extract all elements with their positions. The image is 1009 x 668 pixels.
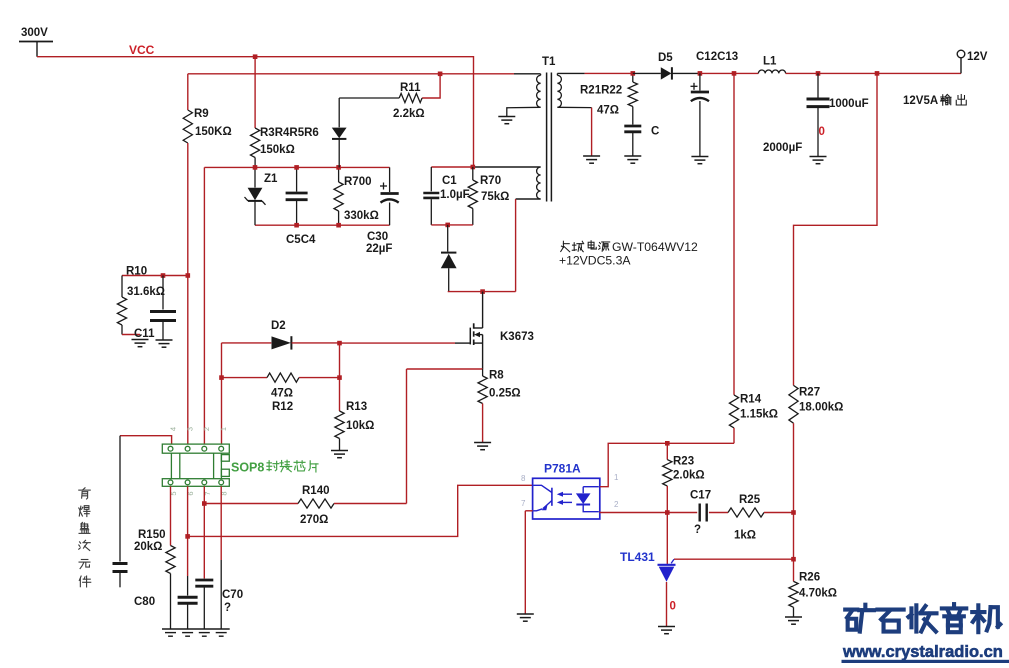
ground below R8 bbox=[474, 442, 491, 444]
svg-text:47Ω: 47Ω bbox=[597, 105, 619, 117]
ground cluster under SOP8 bbox=[162, 628, 230, 630]
wire R8 sense riser to R140 bbox=[406, 369, 408, 504]
wire primary bottom lead bbox=[507, 107, 541, 116]
svg-text:R26: R26 bbox=[799, 572, 820, 584]
capacitor C snubber bbox=[624, 125, 641, 128]
wire pin6 column bbox=[187, 486, 189, 576]
wire opto pin2 line bbox=[599, 511, 601, 514]
svg-text:R21R22: R21R22 bbox=[580, 85, 622, 97]
svg-text:C5C4: C5C4 bbox=[286, 234, 316, 246]
svg-text:1.15kΩ: 1.15kΩ bbox=[740, 409, 778, 421]
ground opto bbox=[517, 613, 534, 615]
svg-text:R700: R700 bbox=[344, 176, 372, 188]
transformer primary winding bbox=[540, 74, 542, 76]
resistor R25 bbox=[728, 508, 764, 517]
wire Z1 box top edge bbox=[204, 166, 389, 168]
svg-text:330kΩ: 330kΩ bbox=[344, 210, 379, 222]
svg-text:2000µF: 2000µF bbox=[763, 142, 802, 154]
wire D2 node down to SOP8 pin1 bbox=[221, 343, 223, 444]
ground below 1000uF bbox=[810, 156, 827, 158]
svg-text:T1: T1 bbox=[542, 56, 556, 68]
resistor R12 bbox=[222, 377, 268, 379]
watermark crystalradio logo bbox=[845, 605, 874, 632]
svg-text:150kΩ: 150kΩ bbox=[260, 144, 295, 156]
wire drain riser bbox=[482, 292, 484, 328]
wire pin4 node from C80 bbox=[120, 436, 172, 444]
wire Z1 box bottom edge bbox=[255, 224, 390, 226]
wire VCC rail bbox=[37, 57, 474, 167]
svg-text:L1: L1 bbox=[763, 56, 777, 68]
svg-text:R9: R9 bbox=[194, 108, 209, 120]
transformer core bbox=[546, 73, 548, 202]
ground below R26 bbox=[785, 616, 802, 618]
resistor R14 bbox=[733, 73, 735, 395]
svg-text:R23: R23 bbox=[673, 456, 694, 468]
diode D5 bbox=[633, 72, 661, 74]
svg-text:18.00kΩ: 18.00kΩ bbox=[799, 402, 843, 414]
wire drain node row bbox=[448, 291, 516, 293]
svg-text:4: 4 bbox=[168, 427, 177, 431]
wire pin8 column to ground bbox=[220, 486, 222, 560]
ground below R13 bbox=[331, 450, 348, 452]
svg-text:+12VDC5.3A: +12VDC5.3A bbox=[559, 254, 631, 268]
svg-text:3: 3 bbox=[185, 427, 194, 431]
svg-text:1: 1 bbox=[614, 473, 619, 482]
svg-text:20kΩ: 20kΩ bbox=[134, 541, 162, 553]
diode D3 snubber pointing up bbox=[447, 225, 449, 252]
svg-text:SOP8: SOP8 bbox=[231, 461, 264, 475]
svg-text:D2: D2 bbox=[271, 320, 286, 332]
svg-text:2: 2 bbox=[202, 427, 211, 431]
wire pin6 feedback line to opto bbox=[188, 485, 533, 536]
svg-text:47Ω: 47Ω bbox=[271, 388, 293, 400]
wire C1 box top edge bbox=[431, 166, 473, 168]
wire rail2 to transformer primary bbox=[188, 73, 514, 75]
svg-text:0.25Ω: 0.25Ω bbox=[489, 388, 521, 400]
diode D1 feeding R700 node bbox=[338, 98, 340, 127]
capacitor C1 bbox=[430, 167, 432, 191]
zener diode Z1 bbox=[254, 167, 256, 187]
svg-text:75kΩ: 75kΩ bbox=[481, 191, 509, 203]
svg-text:0: 0 bbox=[819, 126, 825, 138]
capacitor C12C13 electrolytic bbox=[699, 73, 701, 90]
label power supply model bbox=[561, 241, 570, 251]
svg-text:C11: C11 bbox=[134, 328, 155, 340]
terminal 12V bbox=[960, 58, 962, 74]
svg-text:C30: C30 bbox=[367, 231, 388, 243]
resistor R150 below pin5 bbox=[170, 486, 172, 545]
svg-text:12V: 12V bbox=[967, 51, 988, 63]
svg-text:R10: R10 bbox=[126, 266, 147, 278]
svg-text:www.crystalradio.cn: www.crystalradio.cn bbox=[842, 643, 1003, 661]
svg-text:R3R4R5R6: R3R4R5R6 bbox=[260, 127, 319, 139]
svg-text:8: 8 bbox=[521, 474, 526, 483]
label solder pads note vertical bbox=[79, 488, 90, 499]
svg-text:D5: D5 bbox=[658, 52, 673, 64]
shunt regulator TL431 bbox=[666, 513, 668, 565]
capacitor 1000uF bbox=[817, 73, 819, 97]
svg-text:C: C bbox=[651, 126, 659, 138]
svg-text:C17: C17 bbox=[690, 490, 711, 502]
transformer secondary winding bbox=[557, 75, 561, 107]
svg-text:GW-T064WV12: GW-T064WV12 bbox=[612, 240, 698, 254]
wire gate line bbox=[340, 342, 456, 344]
svg-text:R140: R140 bbox=[302, 485, 330, 497]
svg-text:R14: R14 bbox=[740, 394, 762, 406]
svg-text:300V: 300V bbox=[21, 27, 48, 39]
capacitor below pin6 bbox=[178, 596, 198, 599]
svg-text:150KΩ: 150KΩ bbox=[195, 126, 232, 138]
wire secondary bottom lead bbox=[557, 106, 591, 108]
resistor R27 bbox=[789, 385, 798, 423]
capacitor C17 bbox=[667, 512, 697, 514]
resistor R13 bbox=[339, 378, 341, 411]
ground below C bbox=[624, 155, 641, 157]
svg-text:C1: C1 bbox=[442, 175, 457, 187]
svg-text:?: ? bbox=[694, 524, 701, 536]
svg-text:12V5A: 12V5A bbox=[903, 95, 938, 107]
IC U1 SOP8 package bbox=[162, 444, 229, 486]
svg-text:0: 0 bbox=[670, 601, 676, 613]
svg-text:VCC: VCC bbox=[129, 43, 155, 57]
resistor R8 bbox=[407, 368, 483, 370]
svg-text:1.0µF: 1.0µF bbox=[440, 189, 470, 201]
svg-text:4.70kΩ: 4.70kΩ bbox=[799, 588, 837, 600]
resistor R21R22 bbox=[632, 73, 634, 82]
svg-text:1: 1 bbox=[219, 427, 228, 431]
node R10/C11 junction bbox=[122, 275, 188, 277]
ground primary bbox=[498, 116, 515, 118]
svg-text:C70: C70 bbox=[222, 589, 243, 601]
capacitor C30 electrolytic bbox=[389, 167, 391, 192]
resistor R700 bbox=[338, 167, 340, 182]
resistor R3R4R5R6 bbox=[254, 57, 256, 128]
svg-text:10kΩ: 10kΩ bbox=[346, 420, 374, 432]
capacitor C80 dangling bbox=[119, 436, 121, 562]
capacitor C70 bbox=[195, 579, 213, 582]
svg-text:C80: C80 bbox=[134, 596, 155, 608]
svg-text:R70: R70 bbox=[480, 175, 501, 187]
svg-text:K3673: K3673 bbox=[500, 331, 534, 343]
ground secondary bbox=[583, 155, 600, 157]
svg-text:1kΩ: 1kΩ bbox=[734, 530, 756, 542]
svg-text:?: ? bbox=[224, 602, 231, 614]
wire C1 box bottom edge bbox=[431, 224, 473, 226]
wire pin7 column bbox=[203, 486, 205, 503]
resistor R10 bbox=[121, 276, 123, 298]
svg-text:2: 2 bbox=[614, 500, 619, 509]
wire opto pin7 to ground bbox=[525, 510, 532, 512]
ground below TL431 bbox=[658, 626, 675, 628]
ground below C12C13 bbox=[691, 156, 708, 158]
inductor L1 bbox=[758, 70, 785, 73]
wire TL431 reference line bbox=[674, 558, 794, 560]
ground below C11 bbox=[156, 339, 173, 341]
wire opto pin1 up to feedback node bbox=[600, 443, 734, 486]
svg-text:270Ω: 270Ω bbox=[300, 514, 328, 526]
capacitor C5C4 bbox=[296, 167, 298, 191]
wire output to 12V bbox=[786, 72, 961, 74]
svg-text:R13: R13 bbox=[346, 401, 367, 413]
resistor R140 bbox=[204, 503, 298, 505]
resistor R11 bbox=[422, 74, 440, 98]
svg-text:R150: R150 bbox=[138, 529, 166, 541]
svg-text:2.0kΩ: 2.0kΩ bbox=[673, 470, 705, 482]
wire feedback tap jog to R27 bbox=[794, 73, 878, 385]
resistor R26 bbox=[793, 513, 795, 582]
resistor R70 bbox=[472, 167, 474, 180]
transistor Q1 K3673 MOSFET bbox=[469, 328, 471, 345]
wire R9 node to SOP8 pin3 bbox=[187, 276, 189, 445]
svg-text:R12: R12 bbox=[272, 401, 293, 413]
transformer aux winding bbox=[537, 167, 541, 199]
capacitor C11 bbox=[162, 276, 164, 310]
svg-text:1000uF: 1000uF bbox=[829, 98, 869, 110]
svg-text:P781A: P781A bbox=[544, 462, 581, 476]
diode D2 bbox=[222, 342, 272, 344]
optocoupler U2 P781A bbox=[533, 478, 600, 519]
ground below R10 bbox=[132, 339, 149, 341]
svg-text:TL431: TL431 bbox=[620, 550, 655, 564]
svg-text:7: 7 bbox=[521, 499, 526, 508]
wire gate node down to R12 node bbox=[339, 343, 341, 378]
resistor R23 bbox=[666, 443, 668, 459]
svg-text:R8: R8 bbox=[489, 370, 504, 382]
svg-text:R25: R25 bbox=[739, 494, 761, 506]
wire secondary top lead bbox=[557, 72, 584, 74]
node 300V supply terminal bbox=[19, 41, 53, 43]
svg-text:Z1: Z1 bbox=[264, 173, 278, 185]
svg-text:C12C13: C12C13 bbox=[696, 51, 738, 63]
svg-text:R11: R11 bbox=[400, 82, 421, 94]
svg-text:2.2kΩ: 2.2kΩ bbox=[393, 108, 425, 120]
resistor R9 bbox=[187, 74, 189, 110]
svg-text:R27: R27 bbox=[799, 387, 820, 399]
wire output rail bbox=[700, 72, 759, 74]
svg-text:22µF: 22µF bbox=[366, 243, 392, 255]
wire Z1 box left edge down to SOP8 pin2 bbox=[203, 167, 205, 444]
wire aux winding bottom to drain node bbox=[516, 198, 541, 200]
svg-text:31.6kΩ: 31.6kΩ bbox=[127, 286, 165, 298]
